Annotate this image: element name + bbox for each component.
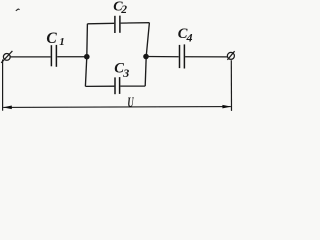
- label C1: [46, 30, 64, 48]
- label C3: [114, 61, 129, 80]
- capacitor C3: [115, 77, 120, 94]
- extension line right: [230, 60, 232, 111]
- svg-text:4: 4: [186, 30, 193, 44]
- svg-text:C: C: [46, 30, 57, 47]
- svg-text:U: U: [127, 94, 134, 111]
- label C4: [178, 26, 193, 44]
- wire: bottom branch left segment: [85, 85, 114, 87]
- wire: bottom branch right segment: [120, 85, 145, 87]
- extension line left: [2, 60, 4, 111]
- wire: top branch left segment: [87, 22, 114, 25]
- node A (left junction dot): [84, 54, 90, 60]
- terminal T2 (right output, circle with slash): [227, 51, 234, 60]
- wire: loop left vertical: [85, 24, 87, 87]
- label C2: [113, 0, 127, 16]
- capacitor C2: [115, 16, 120, 33]
- capacitor C1: [51, 45, 56, 67]
- svg-text:1: 1: [59, 36, 64, 48]
- svg-text:2: 2: [120, 4, 127, 16]
- wire: top branch right segment: [121, 22, 150, 24]
- wire: loop right vertical: [145, 23, 149, 86]
- node B (right junction dot): [143, 54, 149, 60]
- wire: C1 to node A: [57, 56, 86, 58]
- speck (scan mark top-left): [16, 9, 20, 11]
- wire: C4 to right terminal: [185, 56, 227, 58]
- capacitor C4: [180, 44, 185, 68]
- wire: left terminal to C1: [10, 56, 51, 58]
- terminal T1 (left input, circle with slash): [1, 51, 12, 63]
- wire: node B to C4: [146, 56, 179, 58]
- svg-text:3: 3: [122, 66, 129, 80]
- dimension line U (double arrow): [3, 105, 231, 109]
